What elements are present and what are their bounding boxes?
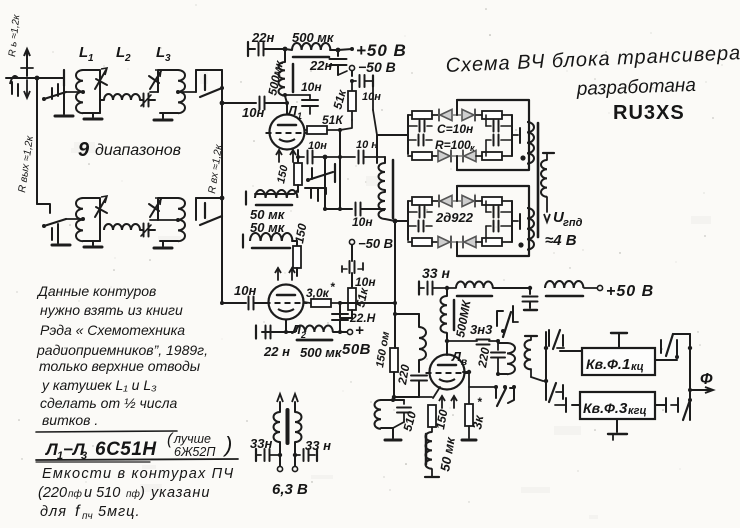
- wire grid node: [447, 340, 477, 342]
- wire c18 bottom: [469, 386, 496, 388]
- terminal +50V c: [597, 283, 654, 300]
- coil L2: [100, 94, 140, 100]
- svg-text:50В: 50В: [342, 341, 371, 358]
- svg-text:≈4 В: ≈4 В: [545, 232, 577, 249]
- wire V1 grid: [269, 131, 270, 133]
- res R3 150: [294, 157, 302, 192]
- net input R~1.2k label: [7, 13, 22, 57]
- label R3 150: [275, 163, 291, 184]
- terminal -50V b: [349, 236, 393, 251]
- svg-text:9: 9: [78, 139, 90, 161]
- res R4 150: [293, 241, 301, 276]
- heater V1 arrows: [276, 150, 296, 162]
- label C19 33n: [250, 436, 272, 451]
- label -50V: [358, 59, 396, 75]
- svg-text:22 н: 22 н: [263, 344, 290, 359]
- switch S1b: [178, 70, 224, 97]
- terminal +50V b: [340, 322, 364, 339]
- coil L1: [76, 70, 100, 113]
- wire V1 cath: [287, 145, 300, 159]
- wire V3 out right: [463, 370, 471, 374]
- label 6.3V: [272, 481, 308, 498]
- label U1 C=10n: [437, 122, 474, 136]
- cap C16 510: [393, 400, 411, 428]
- wire R2 node: [338, 120, 352, 157]
- cap C-L3b trimmer: [149, 198, 161, 217]
- svg-text:RU3XS: RU3XS: [613, 102, 685, 124]
- coil L1b: [76, 198, 100, 241]
- note line8: [42, 412, 98, 428]
- note line1: [36, 283, 156, 299]
- heater V3 arrows: [439, 396, 457, 408]
- wire right bus: [221, 70, 223, 303]
- switch S4: [497, 306, 518, 337]
- wire v1 v2: [323, 157, 327, 211]
- label U2 2d922: [435, 210, 474, 225]
- label tubes alt: [167, 431, 232, 459]
- svg-text:1: 1: [88, 53, 94, 64]
- label Dr2 500mk: [265, 59, 286, 97]
- label Ugpd: [553, 209, 583, 229]
- rule tubes: [36, 459, 238, 462]
- wire L3 tap: [150, 90, 180, 94]
- label R1 51k: [330, 87, 349, 110]
- svg-text:10н: 10н: [234, 283, 256, 298]
- svg-text:Кв.: Кв.: [583, 400, 604, 416]
- svg-text:33 н: 33 н: [422, 265, 450, 281]
- label Dr5 500mk: [300, 345, 343, 360]
- svg-text:разработана: разработана: [575, 75, 696, 100]
- svg-text:Рэда « Схемотехника: Рэда « Схемотехника: [40, 322, 185, 338]
- svg-text:L: L: [156, 44, 165, 61]
- choke Dr7 500mk h2: [545, 281, 597, 296]
- label R8 3k: [469, 395, 486, 431]
- svg-text:ʙ: ʙ: [461, 357, 467, 368]
- res R7 150om: [390, 314, 398, 399]
- wire bus T1 down: [393, 221, 397, 316]
- cap C-L2b coupling: [140, 224, 155, 237]
- label F1: [586, 356, 644, 373]
- svg-text:3: 3: [165, 53, 171, 64]
- svg-text:пф: пф: [126, 488, 141, 500]
- switch S5 upper-left: [546, 330, 564, 349]
- wire -50 branch: [351, 71, 353, 76]
- transformer T1: [377, 135, 397, 223]
- svg-text:Емкости в контурах ПЧ: Емкости в контурах ПЧ: [42, 466, 234, 482]
- label C 22n: [251, 30, 274, 45]
- res R8 3k: [462, 372, 476, 440]
- svg-text:10н: 10н: [362, 91, 381, 103]
- label R7 150om: [374, 331, 392, 369]
- wire T1 sec: [384, 208, 386, 210]
- label U1 R=100k: [435, 138, 475, 153]
- ground S2a: [52, 226, 70, 245]
- transformer T3 mixer2 winding: [527, 208, 534, 250]
- ground L1: [84, 113, 102, 119]
- ground F2: [608, 419, 627, 440]
- label C13 33n: [422, 265, 450, 281]
- svg-text:к: к: [470, 143, 475, 153]
- svg-text:у катушек L₁ и L₃: у катушек L₁ и L₃: [41, 377, 157, 393]
- svg-text:−50 В: −50 В: [358, 59, 396, 75]
- transformer T5 heater: [274, 402, 302, 455]
- ground S1a: [55, 86, 73, 116]
- title line2: [575, 75, 696, 100]
- label Dr4 50mk: [250, 220, 286, 235]
- note line7: [40, 395, 177, 411]
- svg-text:10н: 10н: [301, 80, 322, 94]
- wire bank vert: [544, 332, 548, 400]
- mixer U1 ring: [395, 100, 529, 170]
- svg-text:51К: 51К: [322, 113, 344, 127]
- svg-text:Ф.: Ф.: [604, 400, 619, 416]
- svg-text:для: для: [40, 504, 67, 520]
- svg-text:Кв.: Кв.: [586, 356, 607, 372]
- svg-text:2: 2: [124, 53, 131, 64]
- label Dr9 50mk: [437, 435, 458, 473]
- cap C13 33n: [419, 282, 449, 295]
- label V1: [287, 103, 302, 121]
- note line6: [41, 377, 157, 393]
- cap C4 10n: [350, 75, 373, 90]
- label C4 10n: [362, 91, 381, 103]
- wire S5 to box1: [546, 348, 582, 351]
- terminal 6.3V b: [292, 455, 297, 472]
- note line5: [39, 358, 201, 374]
- label C15 220: [395, 363, 412, 386]
- cap C12 22n: [256, 326, 286, 339]
- label R2 51k: [322, 113, 344, 127]
- svg-text:(220: (220: [38, 485, 67, 501]
- switch S1a: [37, 70, 66, 101]
- svg-text:3н3: 3н3: [470, 322, 493, 337]
- dot T3 polarity: [518, 242, 523, 247]
- label V3: [451, 349, 467, 368]
- svg-text:6Ж52П: 6Ж52П: [174, 445, 216, 459]
- svg-text:+: +: [355, 322, 364, 339]
- input arrow: [21, 49, 33, 76]
- box F1 quartz 1kHz: [582, 348, 655, 375]
- coil L3b: [158, 198, 185, 241]
- label L1: [79, 44, 94, 64]
- svg-text:5мгц.: 5мгц.: [98, 504, 140, 520]
- note line3: [40, 322, 185, 338]
- ground L1b: [84, 241, 102, 247]
- label R4 150: [292, 222, 309, 244]
- wire T4 to bank: [543, 380, 546, 382]
- label R9 150: [433, 408, 450, 430]
- switch S8 lower-right: [655, 398, 692, 420]
- svg-text:22н: 22н: [309, 58, 332, 73]
- label C2 22n: [309, 58, 332, 73]
- svg-text:50 мк: 50 мк: [250, 220, 286, 235]
- res R9 150 cath: [428, 387, 440, 432]
- svg-text:10н: 10н: [352, 215, 373, 229]
- svg-text:1: 1: [622, 356, 630, 373]
- label C12 22n: [263, 344, 290, 359]
- note line2: [40, 302, 183, 318]
- label 9 bands: [78, 139, 181, 161]
- wire tank2 top: [395, 313, 419, 315]
- cap C10 10n input: [220, 297, 268, 310]
- wire mixer2 left: [393, 219, 408, 224]
- wire V1 plate: [285, 101, 289, 114]
- winding GPD: [541, 153, 554, 212]
- input arrow down: [24, 80, 30, 98]
- wire bus down2: [391, 397, 395, 402]
- wire plate out: [340, 301, 397, 305]
- svg-text:кгц: кгц: [628, 405, 647, 417]
- net Rin label: [206, 143, 225, 195]
- svg-text:Ф.: Ф.: [607, 356, 622, 372]
- label C7 10n: [356, 139, 378, 151]
- svg-text:радиоприемников”, 1989г,: радиоприемников”, 1989г,: [36, 342, 208, 358]
- label Dr3 50mk: [250, 207, 286, 222]
- cap C11 22n: [332, 303, 348, 334]
- wire V2 cath: [284, 320, 288, 334]
- wire L1 tap: [66, 90, 85, 94]
- svg-text:2д922: 2д922: [435, 210, 474, 225]
- res R5 51k: [340, 288, 356, 318]
- core GPD transformer: [537, 123, 540, 237]
- wire b-row: [325, 208, 352, 210]
- tube V2: [265, 285, 308, 320]
- label +50V b: [342, 341, 371, 358]
- cap C-L1b trimmer: [95, 196, 107, 217]
- box F2 quartz 3kHz: [580, 392, 655, 419]
- cap C8 10n: [356, 203, 386, 216]
- heater arrows T5: [277, 394, 298, 402]
- cap C6 10n: [298, 151, 325, 164]
- choke Dr1 500mk: [285, 43, 338, 57]
- cap C7 10n: [340, 151, 385, 164]
- label F2: [583, 400, 647, 417]
- tube V1: [266, 115, 309, 150]
- antenna symbol box1: [611, 333, 627, 348]
- transformer T4: [498, 336, 546, 381]
- transformer T2 mixer1 winding: [527, 120, 534, 164]
- label C3 10n: [301, 80, 322, 94]
- wire mid switch: [494, 385, 516, 406]
- wire V3 plate: [446, 341, 448, 355]
- wire tank2 bottom: [394, 396, 432, 398]
- arrow F out: [690, 387, 713, 393]
- wire right vert: [688, 334, 692, 420]
- wire left bus: [37, 78, 50, 213]
- svg-text:сделать от ½ числа: сделать от ½ числа: [40, 395, 177, 411]
- coil L2b: [104, 224, 140, 230]
- heater V2 arrows: [275, 268, 295, 280]
- switch S3: [305, 164, 335, 201]
- svg-text:1: 1: [297, 111, 302, 121]
- svg-text:кц: кц: [631, 361, 644, 373]
- svg-text:10н: 10н: [242, 105, 264, 120]
- label tubes type: [44, 439, 157, 462]
- svg-text:6С51Н: 6С51Н: [95, 439, 157, 460]
- choke Dr4 50mk: [243, 233, 297, 248]
- label choke 500mk: [292, 30, 335, 45]
- input connector: [6, 76, 37, 96]
- label C17 3n3: [470, 322, 493, 337]
- mixer U2 ring: [395, 186, 529, 256]
- res R6 3k plate: [304, 299, 342, 307]
- terminal -50V: [338, 65, 355, 75]
- svg-text:витков .: витков .: [42, 412, 98, 428]
- ground L3b: [154, 241, 172, 248]
- cap C17 3n3: [447, 339, 500, 345]
- svg-text:10 н: 10 н: [356, 139, 378, 151]
- node b1: [323, 155, 328, 160]
- label C11 22n: [349, 311, 376, 325]
- dot T2 polarity: [520, 155, 525, 160]
- svg-text:и 510: и 510: [84, 485, 120, 501]
- choke Dr9 50mk v: [425, 432, 439, 477]
- label +50V: [356, 41, 407, 60]
- svg-text:Данные контуров: Данные контуров: [36, 283, 156, 299]
- svg-text:диапазонов: диапазонов: [95, 142, 181, 159]
- label C9 10n: [355, 275, 376, 289]
- svg-text:нужно взять из книги: нужно взять из книги: [40, 302, 183, 318]
- note2 line2: [38, 485, 210, 501]
- ground tank 510: [385, 428, 401, 440]
- cap C2 22n: [330, 50, 347, 75]
- svg-text:+50 В: +50 В: [606, 283, 654, 300]
- cap C-L1 trimmer: [95, 68, 107, 89]
- choke Dr2 500mk vertical: [278, 49, 293, 103]
- label C20 33n: [305, 438, 331, 453]
- svg-text:C=10н: C=10н: [437, 122, 474, 136]
- node a2: [336, 48, 341, 53]
- svg-text:гпд: гпд: [563, 217, 583, 229]
- cap C1 22n: [248, 42, 285, 56]
- res R2 51k plate: [305, 126, 340, 134]
- label Dr8 500mk: [453, 298, 474, 339]
- svg-text:500 мк: 500 мк: [300, 345, 343, 360]
- svg-text:пф: пф: [68, 488, 83, 500]
- coil L4 tank: [419, 314, 426, 372]
- net Rout label: [16, 134, 36, 193]
- label C5 10n: [242, 105, 264, 120]
- choke Dr8 500mk v: [441, 288, 455, 343]
- svg-text:6,3 В: 6,3 В: [272, 481, 308, 498]
- coil L3: [158, 70, 185, 113]
- arrow GPD: [544, 214, 550, 222]
- note2 line3: [40, 503, 140, 522]
- label R5 51k: [353, 286, 371, 309]
- switch S2b: [150, 196, 224, 225]
- cap C14: [523, 288, 538, 310]
- cap C20 33n: [293, 449, 317, 461]
- choke Dr6 500mk h: [447, 281, 530, 296]
- label C6 10n: [308, 140, 327, 152]
- wire to +50: [338, 47, 354, 51]
- node a1: [283, 47, 288, 52]
- title line1: [445, 42, 740, 77]
- label R6 3.0k: [306, 280, 336, 300]
- wire b1-b2: [325, 155, 342, 159]
- svg-text:лучше: лучше: [173, 432, 211, 446]
- coil L5 510 tank: [375, 400, 405, 429]
- cap C-L3 trimmer: [149, 70, 161, 89]
- terminal 6.3V a: [277, 455, 282, 472]
- switch S2a: [37, 213, 66, 240]
- svg-text:L: L: [116, 44, 125, 61]
- cap C19 33n: [256, 449, 282, 461]
- label C18 220: [475, 346, 492, 369]
- label C8 10n: [352, 215, 373, 229]
- label L2: [116, 44, 131, 64]
- svg-text:+50 В: +50 В: [356, 41, 407, 60]
- cap C-L2 coupling: [140, 94, 155, 107]
- switch S7 lower-left: [546, 381, 580, 412]
- label L3: [156, 44, 171, 64]
- switch S6 upper-right: [655, 334, 690, 360]
- svg-text:10н: 10н: [308, 140, 327, 152]
- label V2: [291, 322, 306, 340]
- label F out: [700, 371, 713, 388]
- wire S6 top: [673, 333, 690, 335]
- cap C5 10n input: [220, 97, 287, 110]
- choke Dr3 50mk: [246, 190, 298, 205]
- node c1: [528, 286, 532, 290]
- choke Dr5 500mk: [286, 326, 340, 341]
- label C16 510: [400, 409, 419, 432]
- cap C3 10n: [283, 93, 318, 114]
- cap C18 220: [491, 341, 505, 376]
- note line4: [36, 342, 208, 358]
- svg-text:−50 В: −50 В: [358, 236, 393, 251]
- ground L3: [154, 113, 172, 120]
- svg-text:3,0к: 3,0к: [306, 286, 330, 300]
- svg-text:3: 3: [619, 400, 628, 417]
- svg-text:) указани: ) указани: [138, 485, 210, 501]
- svg-text:R=100: R=100: [435, 138, 471, 152]
- svg-text:L: L: [79, 44, 88, 61]
- wire mixer1 left: [373, 87, 408, 135]
- svg-text:Л: Л: [44, 440, 58, 459]
- res R1 51k: [348, 91, 356, 120]
- label C10 10n: [234, 283, 256, 298]
- tube V3: [426, 355, 469, 390]
- wire L1b tap: [66, 217, 85, 221]
- title RU3XS: [613, 102, 685, 124]
- rule note: [36, 431, 177, 432]
- svg-text:Ф: Ф: [700, 371, 713, 388]
- svg-text:пч: пч: [82, 511, 93, 522]
- note2 line1: [42, 466, 234, 482]
- cap C9 10n: [342, 245, 363, 288]
- label 4V: [545, 232, 577, 249]
- node input: [35, 76, 40, 81]
- cap C15 220: [411, 376, 427, 398]
- wire v2: [338, 157, 342, 211]
- svg-text:только верхние отводы: только верхние отводы: [39, 358, 201, 374]
